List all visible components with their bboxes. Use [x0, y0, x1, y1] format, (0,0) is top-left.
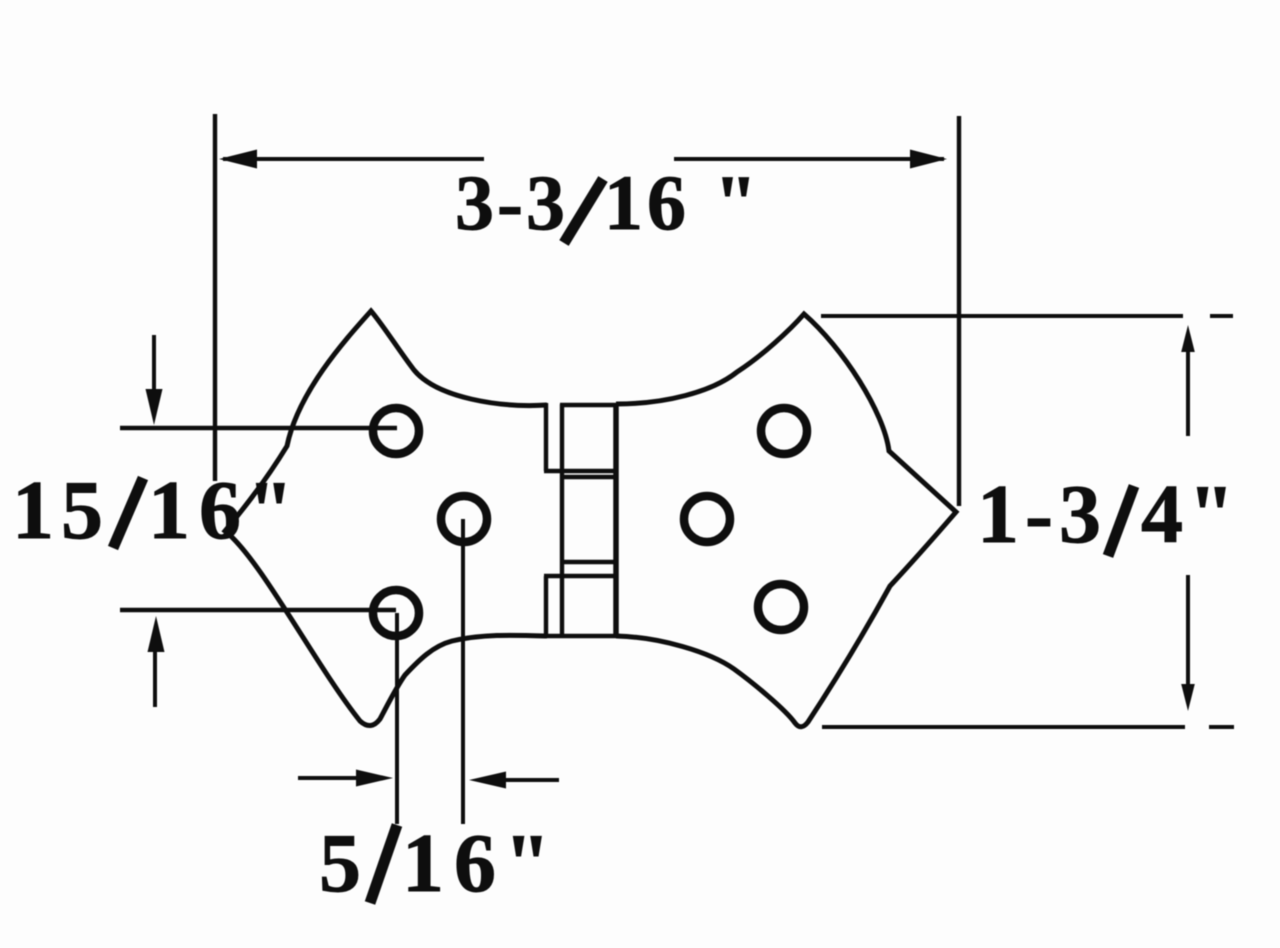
- height dimension extension line bottom: [822, 725, 1185, 729]
- svg-text:16: 16: [148, 464, 250, 557]
- screw hole left top: [373, 408, 419, 454]
- hinge right leaf outline: [616, 314, 956, 727]
- height dimension line lower segment: [1186, 575, 1190, 688]
- svg-text:": ": [714, 159, 757, 246]
- width dimension slash: [564, 179, 603, 243]
- hinge barrel left leaf edge upper segment: [544, 403, 548, 471]
- hole column right arrowhead (points left): [469, 772, 506, 789]
- hole spacing up arrowhead: [148, 616, 165, 652]
- hole column right arrow tail: [505, 778, 559, 782]
- hole spacing dimension upper extension line: [120, 426, 397, 430]
- hole spacing down arrowhead: [146, 389, 163, 425]
- height dimension line upper segment: [1186, 348, 1190, 436]
- width dimension line right segment: [674, 157, 944, 161]
- svg-text:": ": [504, 817, 551, 910]
- width dimension left arrowhead: [219, 150, 257, 169]
- width dimension extension line right vertical: [957, 116, 961, 506]
- svg-text:": ": [1188, 468, 1235, 561]
- hole column left arrow tail: [298, 776, 360, 780]
- width dimension right arrowhead: [910, 150, 947, 169]
- hinge barrel left edge: [560, 404, 564, 635]
- svg-text:4: 4: [1141, 468, 1183, 561]
- screw hole right middle: [684, 496, 730, 542]
- height dimension down arrowhead: [1181, 684, 1195, 711]
- hole column dimension line right vertical: [461, 519, 465, 824]
- height dimension slash: [1108, 486, 1134, 556]
- hole column spacing slash: [370, 825, 397, 903]
- hinge barrel left leaf edge lower segment: [544, 576, 548, 636]
- hole column left arrowhead (points right): [356, 770, 393, 787]
- hinge left leaf outline: [225, 311, 547, 726]
- hinge barrel knuckle line 4: [544, 574, 618, 578]
- svg-text:16: 16: [604, 159, 690, 246]
- height dimension extension line top: [821, 314, 1183, 318]
- left hole spacing slash: [113, 478, 143, 548]
- svg-text:5: 5: [319, 817, 361, 910]
- hinge barrel right edge: [613, 404, 619, 635]
- svg-text:3-3: 3-3: [455, 159, 568, 246]
- screw hole left bottom: [373, 590, 419, 636]
- svg-text:1-3: 1-3: [977, 468, 1107, 561]
- hole spacing down arrow stem: [152, 335, 156, 392]
- hinge barrel knuckle line 3: [560, 560, 618, 564]
- screw hole right top: [761, 408, 807, 454]
- hole column dimension line left vertical: [395, 613, 399, 824]
- svg-text:16: 16: [402, 817, 506, 910]
- height dimension up arrowhead: [1181, 325, 1195, 352]
- hinge barrel top edge: [560, 403, 618, 407]
- height dimension extension line bottom end dash: [1209, 725, 1234, 729]
- hinge barrel knuckle line 1: [544, 469, 618, 473]
- svg-text:15: 15: [12, 464, 110, 557]
- screw hole right bottom: [758, 584, 804, 630]
- hinge barrel bottom edge: [544, 634, 620, 638]
- hole spacing dimension lower extension line: [120, 608, 396, 612]
- screw hole left middle: [441, 496, 487, 542]
- width dimension line left segment: [223, 157, 484, 161]
- height dimension extension line top end dash: [1210, 314, 1233, 318]
- hole spacing up arrow stem: [153, 650, 157, 707]
- width dimension extension line left vertical: [213, 114, 217, 481]
- hinge barrel knuckle line 2: [560, 475, 618, 479]
- svg-text:": ": [247, 464, 294, 557]
